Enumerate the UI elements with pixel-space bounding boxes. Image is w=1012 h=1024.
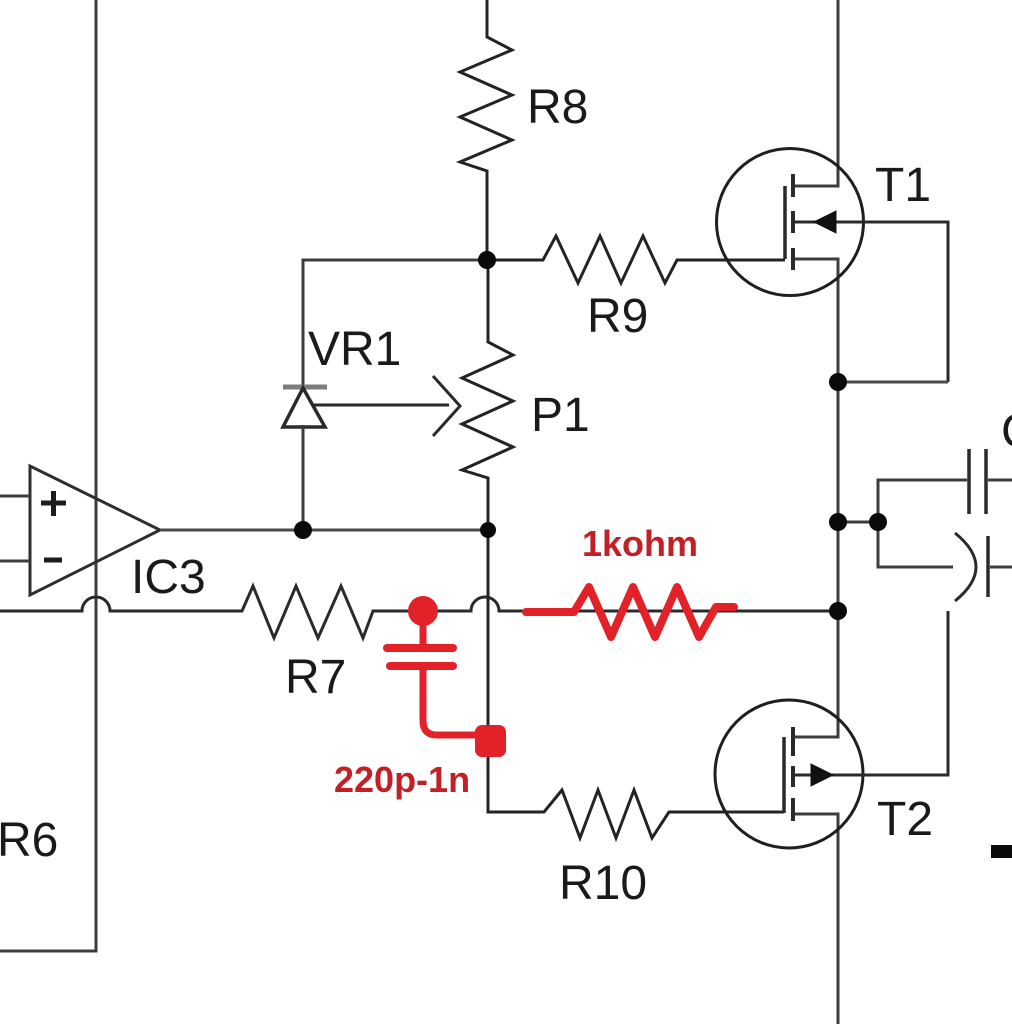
- svg-text:220p-1n: 220p-1n: [334, 759, 470, 800]
- svg-text:C: C: [1001, 405, 1012, 458]
- svg-text:T2: T2: [877, 793, 933, 846]
- svg-text:1kohm: 1kohm: [582, 523, 698, 564]
- svg-text:P1: P1: [531, 389, 590, 442]
- svg-text:R7: R7: [285, 651, 346, 704]
- svg-text:R10: R10: [559, 857, 647, 910]
- svg-text:R6: R6: [0, 814, 58, 867]
- svg-text:IC3: IC3: [131, 551, 206, 604]
- svg-text:T1: T1: [875, 159, 931, 212]
- svg-text:R9: R9: [587, 290, 648, 343]
- svg-text:VR1: VR1: [308, 323, 401, 376]
- svg-text:R8: R8: [527, 81, 588, 134]
